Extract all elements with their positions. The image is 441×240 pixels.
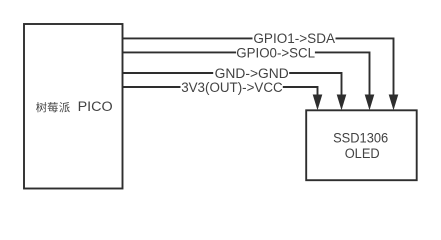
- wire GND: [123, 73, 342, 96]
- svg-text:PICO: PICO: [78, 99, 113, 114]
- arrowhead VCC: [313, 95, 323, 111]
- label U1 glyph 莓: [48, 102, 58, 112]
- wire SDA: GPIO1 to OLED SDA: [123, 38, 394, 96]
- net label 3V3(OUT)->VCC: [181, 81, 283, 93]
- svg-text:SSD1306: SSD1306: [333, 131, 388, 146]
- net label GPIO0->SCL: [236, 46, 315, 58]
- label U1 glyph 树: [36, 102, 46, 112]
- wire VCC: 3V3(OUT) to OLED VCC: [123, 87, 318, 96]
- svg-text:GPIO1->SDA: GPIO1->SDA: [253, 31, 335, 46]
- net label GPIO1->SDA: [253, 32, 336, 44]
- svg-text:OLED: OLED: [345, 146, 380, 161]
- arrowhead SCL: [365, 95, 375, 111]
- module U2: SSD1306 OLED box: [306, 110, 417, 180]
- wire SCL: GPIO0 to OLED SCL: [123, 52, 370, 96]
- label U1 glyph 派: [59, 102, 70, 112]
- svg-text:3V3(OUT)->VCC: 3V3(OUT)->VCC: [181, 80, 283, 95]
- module U1: Raspberry Pi Pico box: [24, 24, 123, 189]
- arrowhead SDA: [389, 95, 399, 111]
- net label GND->GND: [213, 67, 289, 79]
- svg-text:GPIO0->SCL: GPIO0->SCL: [236, 45, 315, 60]
- svg-text:GND->GND: GND->GND: [215, 66, 289, 81]
- arrowhead GND: [337, 95, 347, 111]
